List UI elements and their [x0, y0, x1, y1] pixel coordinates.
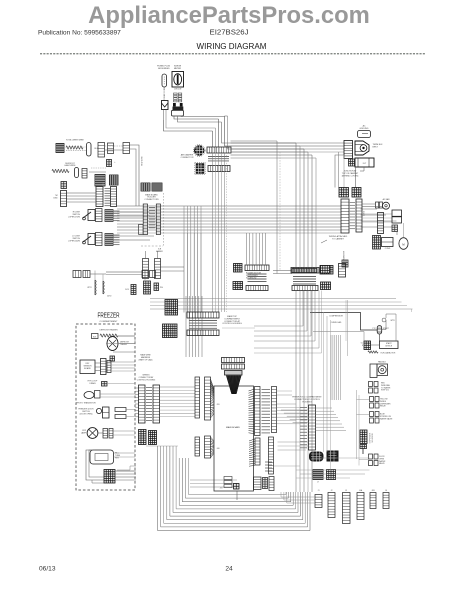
- wire row1 to trunk: [130, 145, 140, 206]
- junction box side lug: [349, 159, 355, 166]
- wire trunk to start: [310, 300, 377, 356]
- defrost heater terminal: [56, 144, 64, 153]
- connector cap F: [82, 169, 87, 179]
- fz lamp connectors: [103, 429, 113, 439]
- fz bottom connector: [104, 470, 115, 484]
- label main board: [226, 426, 240, 429]
- label photo transistor: [76, 401, 96, 404]
- svg-text:PHOTO TRANSISTOR: PHOTO TRANSISTOR: [76, 401, 96, 404]
- title underline dashed: [40, 53, 425, 55]
- control housing strip 2: [153, 385, 160, 423]
- wires fz top right: [106, 336, 135, 352]
- board left fan 2: [211, 437, 215, 458]
- board top connector stack: [222, 358, 245, 376]
- board right fan 2: [249, 439, 255, 466]
- svg-text:COND: COND: [385, 248, 391, 250]
- svg-text:RELAY: RELAY: [380, 405, 387, 408]
- mc small box: [139, 224, 144, 234]
- vertical strip V1: [96, 187, 103, 207]
- vertical strip V3: [341, 199, 349, 233]
- grid block G6: [373, 236, 381, 250]
- label ac ground: [360, 125, 369, 131]
- htr loop comp: [102, 382, 108, 387]
- center assembly right bar2: [292, 286, 318, 291]
- svg-text:HEAT WIRE: HEAT WIRE: [65, 164, 77, 167]
- footer date: [39, 566, 56, 573]
- vertical strip V5: [378, 213, 384, 234]
- label htr loop drain: [88, 381, 98, 385]
- board right strip 1: [255, 387, 261, 436]
- center dark grid R2: [321, 282, 331, 290]
- label defrost therm: [120, 342, 130, 346]
- wires to J strips: [281, 492, 315, 503]
- svg-text:J7: J7: [317, 481, 319, 483]
- svg-text:CONNECTOR: CONNECTOR: [181, 157, 194, 159]
- svg-text:J6: J6: [385, 490, 387, 492]
- wires fz bottom connector right: [115, 466, 136, 480]
- label fresh food compartment: [292, 396, 322, 404]
- housing dark block 2: [149, 431, 157, 445]
- center vertical bundle upper: [186, 296, 202, 357]
- connector caps pair: [143, 259, 161, 279]
- comp I2: [339, 264, 346, 278]
- svg-text:TO CABINET: TO CABINET: [332, 238, 345, 241]
- svg-text:SOLENOID: SOLENOID: [246, 277, 257, 279]
- start capsule: [377, 326, 382, 335]
- center dark grid L1: [234, 264, 243, 273]
- svg-text:(OPEN 140F): (OPEN 140F): [69, 240, 81, 242]
- label air damper control: [181, 154, 194, 160]
- terminal grid rows: [174, 93, 182, 102]
- label J1: [318, 490, 320, 492]
- relay grid M1: [165, 300, 178, 316]
- connector bar CN1: [207, 147, 231, 153]
- svg-text:WTR: WTR: [391, 320, 396, 322]
- comp small G: [107, 160, 117, 167]
- pin labels row: [208, 157, 229, 161]
- svg-text:DEFROST HEATER: DEFROST HEATER: [99, 329, 118, 332]
- svg-text:MAKER: MAKER: [156, 250, 163, 253]
- label fill tube: [115, 453, 121, 460]
- wires TS1 to V1: [67, 183, 104, 202]
- connector strip MC2: [156, 204, 160, 235]
- svg-text:CONTROL HOUSING: CONTROL HOUSING: [222, 323, 242, 325]
- label energy meter: [174, 66, 182, 70]
- label wiring connector housing: [137, 375, 156, 382]
- svg-text:06/13: 06/13: [39, 566, 56, 573]
- fz sensor comp: [110, 356, 115, 361]
- svg-text:CONNECTORS: CONNECTORS: [144, 199, 159, 201]
- air damper motor M1: [193, 145, 205, 157]
- condenser fan motor M3: [399, 238, 408, 250]
- watt meter U1: [172, 72, 184, 91]
- center assembly right bar: [291, 268, 319, 274]
- svg-text:WIRING DIAGRAM: WIRING DIAGRAM: [197, 42, 267, 51]
- svg-text:PTC: PTC: [372, 328, 376, 330]
- svg-text:WATER VALVE: WATER VALVE: [380, 417, 393, 420]
- vertical strip V2: [111, 187, 117, 207]
- title WIRING DIAGRAM: [197, 42, 267, 51]
- svg-text:CONTROL HOUSING: CONTROL HOUSING: [137, 379, 156, 381]
- publication number: [38, 30, 121, 37]
- label evap fan: [378, 361, 387, 364]
- run winding squiggle: [368, 351, 378, 353]
- water valve coil W1: [87, 280, 96, 295]
- door connector: [369, 454, 386, 466]
- svg-text:FREEZER: FREEZER: [98, 313, 120, 320]
- svg-text:CIRCUIT: CIRCUIT: [174, 89, 183, 91]
- fill tube heater box: [90, 450, 114, 464]
- svg-text:MAIN BOARD: MAIN BOARD: [226, 426, 240, 429]
- step wires right: [254, 291, 322, 354]
- center assembly left bar2: [246, 286, 268, 291]
- yellow disp relay connector: [370, 397, 392, 409]
- label wiring attached to cabinet: [321, 235, 348, 243]
- label FREEZER: [98, 313, 120, 320]
- board left strip 1: [195, 377, 200, 418]
- svg-text:WV: WV: [160, 287, 164, 289]
- svg-text:FZ BLOWER WIRE: FZ BLOWER WIRE: [66, 140, 84, 142]
- box B6: [382, 238, 394, 250]
- vertical text comp: [342, 250, 348, 267]
- svg-text:COND: COND: [364, 210, 366, 216]
- board dark component: [220, 484, 239, 490]
- pin labels V1: [105, 189, 111, 206]
- wire bundle from power cord: [164, 116, 225, 131]
- fz defrost blk box: [92, 334, 99, 339]
- nested L wires center: [222, 327, 255, 329]
- label defrost heater fz: [99, 329, 118, 332]
- fan connector boxes: [369, 382, 379, 394]
- label red wire fan: [381, 383, 391, 392]
- mid dark block 1: [309, 452, 324, 462]
- wires fz to housing: [135, 388, 139, 417]
- wire bundle turning down to damper connectors: [213, 119, 219, 147]
- ff connector strip: [309, 405, 316, 450]
- row comps left: [73, 271, 106, 278]
- svg-text:GROUND: GROUND: [360, 128, 369, 130]
- dashed link line: [141, 246, 163, 253]
- bus wires right extension: [361, 209, 397, 227]
- pin label column right: [262, 390, 271, 433]
- J3 connector: [343, 493, 351, 524]
- pins S2: [105, 234, 120, 246]
- svg-text:DRAIN: DRAIN: [90, 382, 97, 385]
- wires under board: [190, 480, 237, 487]
- svg-text:GROUNDED: GROUNDED: [158, 68, 170, 70]
- wires caps pair: [146, 251, 185, 271]
- water valve coil W4: [144, 281, 151, 294]
- wires board bottom: [236, 491, 238, 500]
- pin labels MC: [149, 208, 156, 228]
- junction box: [355, 158, 374, 167]
- wires start device: [371, 314, 397, 345]
- pin labels V3: [349, 203, 355, 229]
- relay grid M2: [163, 324, 178, 338]
- connector cap B: [98, 143, 105, 158]
- svg-text:LAMP: LAMP: [81, 431, 87, 434]
- board top wire fan dark: [226, 376, 242, 395]
- svg-text:J40: J40: [216, 448, 220, 450]
- label J2: [331, 490, 333, 492]
- wire row2: [89, 168, 106, 172]
- fz connector strip: [101, 359, 112, 375]
- label hi-limit switch 1: [69, 212, 81, 219]
- ac ground lug: [358, 131, 371, 138]
- svg-text:BOARD: BOARD: [84, 367, 91, 370]
- freezer lamp LP1: [81, 428, 98, 439]
- label J20: [216, 404, 220, 406]
- main top connector bar: [187, 312, 219, 318]
- comp box small: [376, 202, 383, 208]
- wires board right out: [274, 442, 309, 466]
- connector cap C: [108, 143, 114, 154]
- svg-text:DEVICE: DEVICE: [385, 345, 392, 347]
- wire lamp: [98, 432, 103, 434]
- label run capacitor: [381, 351, 396, 354]
- center dark grid L2: [233, 282, 243, 290]
- far right box stack: [392, 210, 402, 232]
- fz interior wires right: [100, 336, 135, 471]
- wires ff strip left: [281, 410, 309, 422]
- wires bar to left: [273, 271, 292, 274]
- svg-text:COMPRESSOR: COMPRESSOR: [329, 316, 343, 318]
- freezer compartment dashed box: [76, 324, 135, 490]
- svg-text:(BEHIND COVER): (BEHIND COVER): [342, 175, 359, 177]
- start device box: [380, 341, 399, 349]
- connector cap E: [75, 168, 79, 178]
- board left strip 2: [205, 377, 211, 420]
- svg-text:BLK: BLK: [93, 336, 97, 338]
- svg-text:J15: J15: [220, 488, 223, 490]
- label compressor: [329, 316, 343, 401]
- hi-limit switch S2: [83, 233, 102, 246]
- label J6: [385, 490, 387, 492]
- hi-limit switch S1: [83, 209, 102, 222]
- model number: [210, 30, 249, 37]
- connector small H: [61, 182, 67, 189]
- label ac fan: [383, 198, 390, 201]
- board left fan 1: [211, 379, 215, 418]
- svg-text:RED WIRE: RED WIRE: [142, 156, 144, 166]
- label def heater row2: [65, 163, 77, 167]
- wires housing to board: [146, 387, 195, 446]
- connector bar CN2: [208, 166, 230, 172]
- evap fan motor M4: [370, 364, 388, 378]
- pin labels right 2: [265, 462, 272, 471]
- control housing strip 1: [139, 385, 146, 423]
- svg-text:J1: J1: [318, 490, 320, 492]
- svg-text:(OPEN 170F): (OPEN 170F): [69, 216, 81, 218]
- ff pin labels: [300, 408, 307, 448]
- svg-text:AppliancePartsPros.com: AppliancePartsPros.com: [88, 2, 370, 29]
- run cap hatch: [361, 341, 371, 350]
- main top connector bar2: [187, 330, 219, 336]
- board fuse boxes: [224, 477, 232, 488]
- wires S1 S2 to right: [113, 212, 154, 240]
- svg-text:24TD: 24TD: [107, 296, 112, 298]
- red wire vertical label: [142, 156, 144, 166]
- svg-text:DRAIN HTR: DRAIN HTR: [343, 250, 346, 261]
- label hi-limit switch 2: [69, 236, 81, 243]
- J4A connector: [357, 493, 364, 520]
- water valve coil W5: [154, 283, 164, 291]
- svg-text:OVERLOAD: OVERLOAD: [331, 321, 342, 324]
- svg-text:⊥: ⊥: [114, 161, 116, 164]
- svg-text:(PART OF CAB): (PART OF CAB): [139, 358, 153, 361]
- trunk drop far left: [231, 141, 281, 274]
- fused plug P1: [162, 74, 167, 87]
- long wires right: [150, 299, 413, 310]
- wires fz box to strip: [95, 363, 101, 371]
- header watermark AppliancePartsPros.com: [88, 2, 370, 29]
- label compartment: [100, 320, 119, 323]
- relay grid K4: [352, 188, 361, 198]
- fz loop wires: [86, 450, 104, 483]
- svg-text:AC FAN: AC FAN: [383, 198, 390, 201]
- right bundle down: [296, 291, 312, 493]
- label freezer door switch: [78, 409, 94, 416]
- ice maker dashed vertical: [163, 193, 165, 246]
- label J4A: [359, 489, 363, 492]
- connector cap A: [87, 143, 92, 157]
- svg-text:J20: J20: [216, 404, 220, 406]
- svg-text:J2: J2: [331, 490, 333, 492]
- wire terminal to bus: [335, 152, 356, 188]
- comp capsule: [364, 210, 366, 216]
- wire ground drop: [360, 167, 364, 171]
- label auger motor: [246, 272, 262, 280]
- svg-text:EI27BS26J: EI27BS26J: [210, 30, 249, 37]
- right bundle lower: [303, 291, 315, 342]
- label junction at top of cabinet: [342, 170, 359, 178]
- right column verticals: [324, 312, 370, 470]
- svg-text:BRKT: BRKT: [373, 146, 379, 148]
- center dark grid R1: [321, 266, 330, 274]
- svg-text:RUN CAPACITOR: RUN CAPACITOR: [381, 351, 396, 354]
- label def heater row1: [66, 140, 84, 142]
- svg-text:M: M: [402, 242, 404, 246]
- relay grid KC2: [152, 183, 162, 191]
- svg-text:POWER CORD: POWER CORD: [164, 87, 166, 101]
- mid grid small 1: [313, 470, 323, 484]
- svg-text:J3: J3: [345, 490, 347, 492]
- J4B connector: [370, 493, 376, 509]
- wires board to bundle: [277, 391, 313, 424]
- center trunk wires from bus: [247, 233, 266, 265]
- label J4B: [371, 490, 375, 492]
- relay grid K3: [339, 188, 349, 198]
- horizontal bar long: [292, 269, 317, 273]
- svg-text:COMPARTMENT: COMPARTMENT: [100, 320, 119, 323]
- svg-text:Publication No: 5995633897: Publication No: 5995633897: [38, 30, 121, 37]
- fz defrost heater R3: [100, 334, 118, 337]
- board left strip 3: [195, 437, 200, 456]
- row long wire: [106, 272, 142, 275]
- svg-text:SOLENOID: SOLENOID: [372, 433, 374, 443]
- wire caps dotted: [105, 146, 124, 150]
- connector cap D: [123, 143, 130, 154]
- bus wires horizontal: [117, 206, 341, 230]
- svg-text:24: 24: [225, 566, 233, 573]
- relay grid KC1: [141, 183, 150, 191]
- board right strip 3: [255, 438, 260, 465]
- wires V4 to fan: [362, 204, 392, 222]
- freezer door switch S3: [96, 407, 109, 418]
- svg-text:THERM: THERM: [120, 344, 127, 346]
- wires right column cross: [296, 458, 370, 478]
- label start: [372, 318, 395, 330]
- board left strip 4: [205, 436, 211, 458]
- svg-text:FAN BLK: FAN BLK: [378, 361, 387, 364]
- J2 connector: [328, 493, 335, 518]
- svg-text:VALVE: VALVE: [379, 462, 385, 465]
- vertical strip V4: [356, 199, 362, 232]
- center assembly left pins: [248, 274, 267, 282]
- label J40: [216, 448, 220, 450]
- row comps right: [142, 271, 156, 278]
- wire bundle to terminal block: [222, 116, 345, 152]
- power plug into terminal block: [355, 141, 369, 155]
- pin labels housing 1: [146, 388, 152, 421]
- board right fan 1: [249, 389, 255, 434]
- main control board U2: [214, 386, 254, 491]
- bus wires extra: [117, 232, 341, 234]
- board bottom connector: [254, 477, 275, 491]
- connector strip MC1: [143, 204, 147, 235]
- wires ff strip right: [316, 408, 347, 430]
- bus vertical trunk B: [184, 233, 201, 313]
- mid dark block 2: [327, 451, 339, 462]
- label main top compartment: [222, 315, 242, 325]
- long wires drop: [411, 309, 413, 312]
- heater wire dotted: [66, 147, 86, 151]
- board right tall strip: [269, 437, 274, 474]
- fz lamp capsule: [84, 391, 100, 399]
- fz door sw boxes: [115, 408, 126, 419]
- svg-text:WTR VLV: WTR VLV: [381, 390, 390, 392]
- defrost heater element R1: [66, 146, 83, 149]
- center trunk wires down: [231, 143, 317, 268]
- J1 connector: [315, 495, 322, 508]
- svg-text:(DOOR OPEN): (DOOR OPEN): [80, 413, 93, 415]
- svg-text:FLT: FLT: [363, 163, 367, 165]
- relay grid K1: [95, 175, 105, 187]
- terminal block TB1 pins: [344, 141, 353, 159]
- nested wire loops: [158, 446, 311, 531]
- svg-text:HOUSING: HOUSING: [302, 401, 312, 403]
- trunk B upper: [184, 206, 201, 233]
- power cord vertical label: [164, 87, 166, 101]
- svg-text:HTR: HTR: [115, 457, 120, 459]
- defrost thermostat TH1: [107, 337, 118, 351]
- bus vertical trunk A: [213, 147, 227, 312]
- svg-text:DMD: DMD: [53, 198, 58, 200]
- air damper lower housing: [195, 162, 205, 174]
- power cord connector: [162, 101, 169, 121]
- terminal strip left TS1: [53, 191, 66, 207]
- defrost heater element R2: [52, 169, 69, 172]
- label terminal block: [373, 144, 384, 148]
- label main board connector: [144, 193, 159, 201]
- mid grid small 2: [327, 470, 336, 480]
- water valve coil W2: [103, 281, 112, 298]
- svg-text:S: S: [362, 345, 364, 347]
- wires to far right: [397, 223, 404, 238]
- board right strip 2: [272, 387, 277, 433]
- svg-text:J4A: J4A: [359, 489, 363, 492]
- svg-text:J4B: J4B: [371, 490, 375, 492]
